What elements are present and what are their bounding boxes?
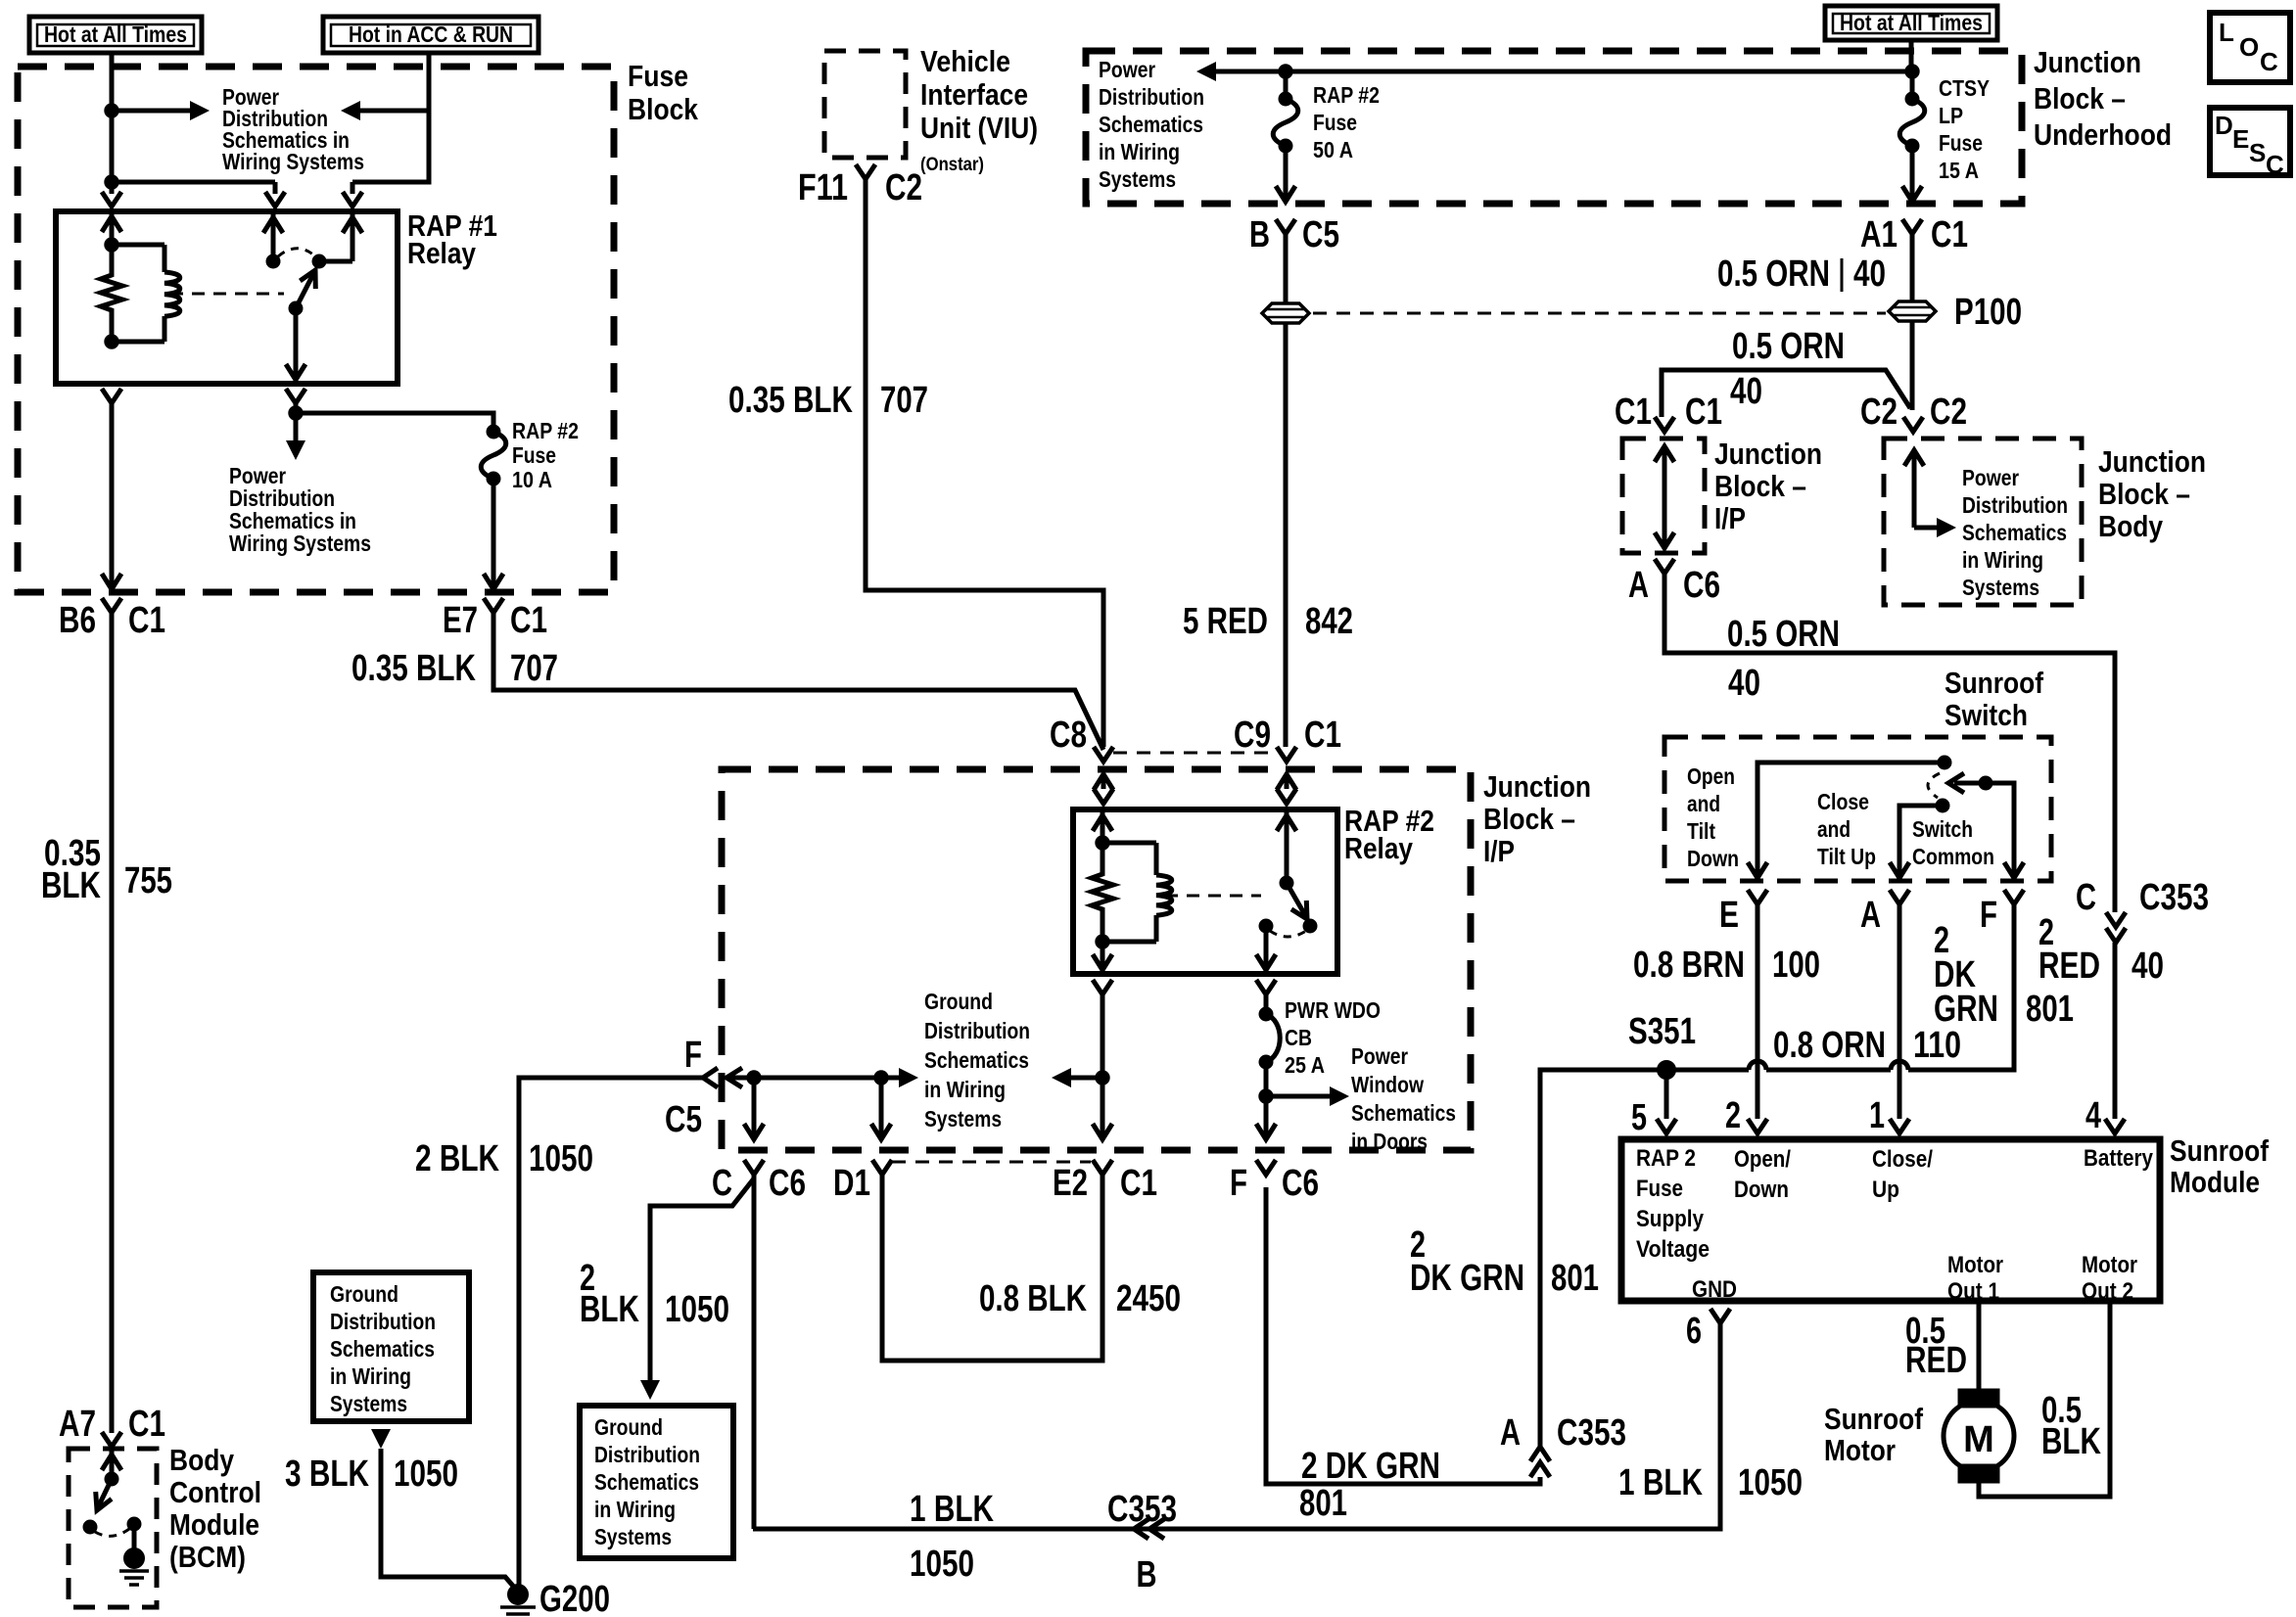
wire RAP #2 50A fuse output to boundary xyxy=(1284,146,1289,200)
svg-text:Fuse: Fuse xyxy=(1313,110,1357,135)
svg-text:Block –: Block – xyxy=(2098,477,2190,511)
wire motor out 2 0.5 BLK xyxy=(1979,1301,2110,1497)
wire CTSY fuse output to boundary xyxy=(1910,146,1915,200)
svg-text:Up: Up xyxy=(1872,1177,1899,1203)
RAP #1 switch movable arm with arrowhead xyxy=(296,274,313,308)
ground bus node dot D1 xyxy=(874,1071,888,1085)
connector chevron module pin 6 GND xyxy=(1710,1309,1730,1323)
wire from close contact to pin A xyxy=(1899,806,1943,876)
svg-text:and: and xyxy=(1817,816,1851,842)
RAP #1 actuation dashed link from coil xyxy=(170,293,284,296)
svg-text:801: 801 xyxy=(2026,989,2074,1030)
svg-text:Out 2: Out 2 xyxy=(2082,1278,2133,1305)
Junction Block Body dashed box xyxy=(1884,439,2082,605)
svg-text:40: 40 xyxy=(1730,371,1762,412)
svg-text:PWR WDO: PWR WDO xyxy=(1285,997,1381,1023)
ground bus arrow at boundary xyxy=(726,1068,742,1087)
RAP #2 coil xyxy=(1102,841,1156,846)
wire motor out 1 0.5 RED xyxy=(1977,1301,1982,1389)
svg-text:A1: A1 xyxy=(1860,214,1898,255)
RAP #1 resistor xyxy=(101,245,122,342)
DESC reference box xyxy=(2210,108,2290,175)
svg-text:Distribution: Distribution xyxy=(924,1018,1030,1043)
dashed pass-through link to P100 xyxy=(1313,312,1886,315)
svg-text:C353: C353 xyxy=(2139,877,2209,918)
relay pin chevron (left) xyxy=(1094,789,1113,804)
internal dashed link C8 to C9 xyxy=(1113,752,1275,755)
Sunroof Module box xyxy=(1621,1139,2160,1301)
switch common node dot xyxy=(1979,776,1992,790)
power label box Hot in ACC & RUN xyxy=(323,17,539,53)
wire 0.35 BLK 707 from VIU to junction block C8 xyxy=(866,179,1103,747)
fuse RAP #2 10 A symbol xyxy=(487,425,500,439)
RAP #2 switch output arrow xyxy=(1264,926,1269,969)
ground bus node dot C C6 xyxy=(747,1071,761,1085)
svg-text:B: B xyxy=(1137,1554,1157,1595)
connector B C5 chevron xyxy=(1276,219,1295,234)
svg-text:Junction: Junction xyxy=(2098,444,2206,479)
connector chevron below RAP #2 switch output xyxy=(1256,980,1276,994)
svg-text:in Wiring: in Wiring xyxy=(1099,139,1180,164)
connector chevron into RAP #1 relay pin 30 xyxy=(102,192,121,207)
wire RAP #1 output to RAP #2 fuse xyxy=(294,403,299,413)
switch common input contact dot xyxy=(1938,756,1951,769)
wire arrow to Power Distribution reference (right) xyxy=(112,109,192,114)
wire to RAP #2 50A fuse xyxy=(1284,71,1289,99)
svg-text:C1: C1 xyxy=(128,600,165,641)
svg-text:0.35 BLK: 0.35 BLK xyxy=(351,648,476,689)
RAP #1 switch dashed travel arc xyxy=(278,249,314,256)
svg-text:RAP 2: RAP 2 xyxy=(1636,1145,1696,1172)
svg-text:A: A xyxy=(1860,895,1881,936)
svg-text:A7: A7 xyxy=(59,1404,96,1445)
connector A7 C1 chevron at BCM xyxy=(102,1432,121,1447)
motor M circle xyxy=(1944,1401,2014,1471)
svg-text:C: C xyxy=(2266,150,2284,179)
svg-text:1 BLK: 1 BLK xyxy=(910,1489,994,1530)
svg-text:Interface: Interface xyxy=(920,77,1028,112)
connector C8 chevron xyxy=(1094,747,1113,762)
RAP #1 switch output wire with arrow xyxy=(294,308,299,380)
switch close contact dot xyxy=(1936,799,1949,812)
svg-text:F: F xyxy=(1230,1163,1247,1204)
svg-text:Open/: Open/ xyxy=(1734,1146,1791,1173)
RAP #2 switch contact dots xyxy=(1259,919,1273,933)
svg-text:Wiring Systems: Wiring Systems xyxy=(222,149,364,174)
svg-text:Fuse: Fuse xyxy=(512,442,556,468)
svg-text:Wiring Systems: Wiring Systems xyxy=(229,531,371,556)
svg-text:I/P: I/P xyxy=(1714,501,1746,535)
connector chevron into RAP #1 relay pin 85 xyxy=(265,192,285,207)
svg-text:Systems: Systems xyxy=(330,1391,407,1416)
svg-text:Schematics: Schematics xyxy=(1351,1100,1456,1126)
connector F11 C2 chevron below VIU xyxy=(856,164,875,179)
svg-text:Block –: Block – xyxy=(2034,81,2126,115)
wire 3 BLK 1050 from ground reference box to G200 xyxy=(371,1429,391,1449)
svg-text:Ground: Ground xyxy=(924,989,993,1014)
Junction Block I/P dashed outline xyxy=(722,769,1471,1150)
grommet symbol on 5 RED wire xyxy=(1262,303,1309,323)
connector C C353 double chevron xyxy=(2106,912,2126,927)
Ground Distribution Schematics reference box (left) xyxy=(313,1272,469,1421)
svg-text:842: 842 xyxy=(1305,601,1353,642)
sunroof motor bottom terminal xyxy=(1958,1464,1999,1483)
connector B C353 double chevron on ground run xyxy=(1134,1519,1148,1539)
svg-text:C1: C1 xyxy=(1931,214,1968,255)
connector chevron into RAP #1 relay pin 86 xyxy=(343,192,362,207)
svg-text:0.35 BLK: 0.35 BLK xyxy=(728,380,853,421)
svg-text:C: C xyxy=(2076,877,2096,918)
svg-text:Block –: Block – xyxy=(1714,469,1806,503)
svg-text:DK GRN: DK GRN xyxy=(1410,1258,1524,1299)
wire coil return down to fuse block edge B6 xyxy=(110,403,115,587)
svg-text:3 BLK: 3 BLK xyxy=(285,1454,369,1495)
svg-text:5 RED: 5 RED xyxy=(1183,601,1268,642)
svg-text:Junction: Junction xyxy=(1483,769,1591,804)
connector chevron module pin 2 xyxy=(1748,1119,1767,1133)
RAP #1 coil top node dot xyxy=(105,238,118,252)
svg-text:C5: C5 xyxy=(665,1099,702,1140)
RAP #1 coil xyxy=(112,243,164,248)
connector C9 C1 chevron xyxy=(1277,747,1296,762)
BCM input arrow xyxy=(110,1451,115,1479)
svg-text:2450: 2450 xyxy=(1116,1278,1181,1319)
connector chevron module pin 1 xyxy=(1890,1119,1909,1133)
LOC reference box xyxy=(2210,13,2290,82)
relay RAP #2 box xyxy=(1073,809,1337,974)
svg-text:Motor: Motor xyxy=(1947,1252,2003,1278)
wire 2 RED 40 battery feed to module pin 4 xyxy=(2113,943,2118,1119)
svg-text:Schematics: Schematics xyxy=(1962,520,2067,545)
svg-text:Sunroof: Sunroof xyxy=(1945,666,2044,700)
relay pin chevron (right) xyxy=(1277,789,1296,804)
switch dashed travel arc xyxy=(1928,773,1940,798)
svg-text:E2: E2 xyxy=(1053,1163,1088,1204)
connector E2 C1 chevron xyxy=(1093,1160,1112,1175)
svg-text:1 BLK: 1 BLK xyxy=(1618,1462,1703,1503)
svg-text:(Onstar): (Onstar) xyxy=(920,155,984,175)
wire from S351 to corner and down to C353 A xyxy=(1540,1070,1646,1446)
splice S351 dot xyxy=(1658,1061,1676,1080)
wire C8 into RAP #2 relay xyxy=(1101,774,1106,789)
svg-text:F: F xyxy=(1980,895,1997,936)
svg-text:O: O xyxy=(2239,32,2259,62)
svg-text:50 A: 50 A xyxy=(1313,137,1353,162)
grommet symbol P100 xyxy=(1889,301,1936,321)
svg-text:C1: C1 xyxy=(128,1404,165,1445)
connector chevron module pin 5 xyxy=(1657,1119,1676,1133)
svg-text:Systems: Systems xyxy=(594,1524,672,1549)
svg-text:C6: C6 xyxy=(769,1163,806,1204)
svg-text:GND: GND xyxy=(1692,1276,1737,1303)
RAP #2 pin arrow coil xyxy=(1101,809,1105,843)
svg-text:5: 5 xyxy=(1631,1097,1647,1138)
svg-text:BLK: BLK xyxy=(41,865,101,906)
wire 0.5 ORN 40 from A C6 to sunroof switch feed xyxy=(1664,574,2115,912)
RAP #1 NO contact dot xyxy=(312,254,326,268)
svg-text:Relay: Relay xyxy=(407,236,477,270)
svg-text:25 A: 25 A xyxy=(1285,1052,1325,1078)
ground G200 symbol xyxy=(500,1605,536,1609)
svg-text:BLK: BLK xyxy=(2041,1421,2101,1462)
svg-text:Common: Common xyxy=(1912,844,1994,869)
RAP #2 coil bottom node dot xyxy=(1096,935,1109,948)
connector F C6 chevron xyxy=(1256,1160,1276,1175)
svg-text:C6: C6 xyxy=(1282,1163,1319,1204)
svg-text:E7: E7 xyxy=(443,600,478,641)
svg-text:Fuse: Fuse xyxy=(1939,130,1983,156)
svg-text:2 DK GRN: 2 DK GRN xyxy=(1301,1446,1440,1487)
ground distribution bus wire xyxy=(726,1076,901,1081)
svg-text:801: 801 xyxy=(1551,1258,1599,1299)
svg-text:Window: Window xyxy=(1351,1072,1424,1097)
svg-text:F11: F11 xyxy=(798,167,848,208)
connector A1 C1 chevron xyxy=(1902,219,1922,234)
svg-text:10 A: 10 A xyxy=(512,467,552,492)
svg-text:1050: 1050 xyxy=(665,1289,729,1330)
Vehicle Interface Unit dashed box xyxy=(824,51,906,158)
fuse RAP #2 50 A symbol xyxy=(1279,92,1292,106)
connector D1 chevron xyxy=(872,1160,892,1175)
svg-text:Hot at All Times: Hot at All Times xyxy=(44,22,187,47)
svg-text:RED: RED xyxy=(1905,1340,1967,1381)
svg-text:RAP #2: RAP #2 xyxy=(1313,82,1380,108)
svg-text:1050: 1050 xyxy=(529,1138,593,1179)
svg-text:Block: Block xyxy=(628,92,699,126)
svg-text:C1: C1 xyxy=(510,600,547,641)
svg-text:Relay: Relay xyxy=(1344,831,1414,865)
ground bus exit chevron F C5 xyxy=(703,1068,718,1087)
wire coil return to ground bus and E2 xyxy=(1101,994,1105,1137)
Junction Block Underhood dashed outline xyxy=(1086,51,2022,204)
svg-text:C1: C1 xyxy=(1120,1163,1157,1204)
RAP #2 coil top node dot xyxy=(1096,836,1109,850)
svg-text:1050: 1050 xyxy=(1738,1462,1803,1503)
Body Control Module dashed box xyxy=(69,1449,157,1607)
svg-text:M: M xyxy=(1963,1419,1994,1460)
svg-text:Battery: Battery xyxy=(2084,1145,2154,1172)
svg-text:RAP #2: RAP #2 xyxy=(512,418,579,443)
svg-text:1050: 1050 xyxy=(394,1454,458,1495)
connector chevron below RAP #1 switch output xyxy=(286,389,305,403)
circuit breaker PWR WDO CB 25A symbol xyxy=(1259,1007,1273,1021)
RAP #1 pin arrow switch common xyxy=(271,211,276,261)
svg-text:Open: Open xyxy=(1687,763,1735,789)
wire 0.8 BRN 100 pin E to module pin 2 xyxy=(1756,904,1760,1119)
svg-text:E: E xyxy=(2232,124,2249,154)
wire 1 BLK 1050 from GND pin to ground run xyxy=(753,1323,1720,1529)
svg-text:C1: C1 xyxy=(1685,392,1722,433)
BCM contact dot xyxy=(83,1520,97,1534)
connector C C6 chevron xyxy=(744,1160,764,1175)
svg-text:C1: C1 xyxy=(1615,392,1652,433)
svg-text:1050: 1050 xyxy=(910,1544,974,1585)
BCM dashed travel arc xyxy=(95,1529,129,1536)
svg-text:Switch: Switch xyxy=(1912,816,1973,842)
svg-text:Sunroof: Sunroof xyxy=(1824,1402,1924,1436)
svg-text:Control: Control xyxy=(169,1475,261,1509)
svg-text:CB: CB xyxy=(1285,1025,1312,1050)
arrow to Power Window Schematics reference xyxy=(1266,1094,1332,1099)
svg-text:Distribution: Distribution xyxy=(1099,84,1204,110)
svg-text:Out 1: Out 1 xyxy=(1947,1278,1999,1305)
svg-text:S: S xyxy=(2249,138,2266,167)
Ground Distribution Schematics reference box (center) xyxy=(580,1406,733,1558)
wire switch common to pin F xyxy=(1986,783,2014,876)
wire 1 BLK 1050 from C C6 down to ground run xyxy=(752,1175,757,1529)
connector C2 C2 chevron into junction block body xyxy=(1903,417,1923,432)
wire branch 0.5 ORN 40 to junction block I/P C1 xyxy=(1662,370,1910,417)
svg-text:707: 707 xyxy=(880,380,928,421)
wire C9 into RAP #2 relay xyxy=(1285,774,1289,789)
RAP #1 coil bottom node dot xyxy=(105,335,118,348)
connector chevron below RAP #1 coil return xyxy=(102,389,121,403)
svg-text:Underhood: Underhood xyxy=(2034,117,2172,152)
RAP #2 resistor xyxy=(1092,843,1113,942)
svg-text:755: 755 xyxy=(124,860,172,901)
RAP #1 switch arm pivot dot xyxy=(289,301,303,315)
connector A C353 double chevron xyxy=(1530,1447,1550,1461)
svg-text:C6: C6 xyxy=(1683,565,1720,606)
svg-text:C353: C353 xyxy=(1557,1412,1626,1454)
svg-text:Power: Power xyxy=(1962,465,2019,490)
wire D1 drop xyxy=(879,1078,884,1137)
connector A C6 chevron below junction block I/P xyxy=(1655,559,1674,574)
Sunroof Switch dashed box xyxy=(1664,737,2051,881)
wire arrow down to Power Distribution reference (lower) xyxy=(294,413,299,442)
svg-text:Down: Down xyxy=(1687,846,1739,871)
wire 0.8 BLK 2450 loop D1 to E2 xyxy=(882,1175,1102,1361)
RAP #2 coil return arrow to box edge xyxy=(1101,942,1105,969)
wire hop over pin-1 wire xyxy=(1891,1061,1908,1070)
wire branch to Ground Distribution reference box xyxy=(650,1178,754,1382)
wire from Hot in ACC & RUN down and left to relay pin 86 xyxy=(352,53,429,182)
svg-text:Body: Body xyxy=(2098,509,2164,543)
svg-text:S351: S351 xyxy=(1628,1011,1696,1052)
svg-text:Tilt: Tilt xyxy=(1687,818,1715,844)
svg-text:C2: C2 xyxy=(1930,392,1967,433)
ground bus continuation to relay wire xyxy=(1052,1068,1071,1087)
svg-text:0.5 ORN: 0.5 ORN xyxy=(1717,254,1830,295)
svg-text:in Wiring: in Wiring xyxy=(1962,547,2043,573)
connector chevron below RAP #2 coil return xyxy=(1093,980,1112,994)
BCM ground contact dot xyxy=(127,1517,141,1531)
svg-text:in Wiring: in Wiring xyxy=(330,1363,411,1389)
BCM ground stem xyxy=(132,1524,137,1549)
svg-text:0.8 BRN: 0.8 BRN xyxy=(1633,945,1745,986)
svg-text:Close/: Close/ xyxy=(1872,1146,1933,1173)
svg-text:LP: LP xyxy=(1939,103,1963,128)
BCM ground ball xyxy=(124,1548,145,1569)
svg-text:in Wiring: in Wiring xyxy=(594,1497,676,1522)
svg-text:Hot in ACC & RUN: Hot in ACC & RUN xyxy=(349,22,513,47)
svg-text:40: 40 xyxy=(1853,254,1886,295)
svg-text:Module: Module xyxy=(2170,1165,2260,1199)
svg-text:CTSY: CTSY xyxy=(1939,75,1990,101)
svg-text:I/P: I/P xyxy=(1483,834,1515,868)
relay RAP #1 box xyxy=(56,211,398,384)
svg-text:Systems: Systems xyxy=(924,1106,1002,1132)
svg-text:Supply: Supply xyxy=(1636,1206,1705,1232)
wire 2 BLK 1050 from F C5 to G200 xyxy=(519,1078,703,1592)
ground bus node dot at relay wire xyxy=(1096,1071,1109,1085)
wire 2 DK GRN continued with crossover hops xyxy=(1646,1068,1749,1073)
node dot hot bus at RAP #2 fuse xyxy=(1279,65,1292,78)
wire 0.8 ORN 110 pin A to module pin 1 xyxy=(1898,904,1902,1119)
svg-text:6: 6 xyxy=(1686,1311,1702,1352)
connector B6 C1 chevron at fuse block bottom xyxy=(102,598,121,613)
svg-text:Junction: Junction xyxy=(1714,437,1822,471)
RAP #2 switch arm with arrowhead xyxy=(1287,883,1305,915)
wire arrow from ACC feed to Power Distribution reference (left) xyxy=(358,109,429,114)
fuse CTSY LP 15 A symbol xyxy=(1905,92,1919,106)
svg-text:Junction: Junction xyxy=(2034,45,2141,79)
sunroof motor top terminal xyxy=(1958,1389,1999,1408)
svg-text:4: 4 xyxy=(2085,1095,2101,1136)
wire from common contact to pin E open/tilt-down xyxy=(1757,762,1945,876)
wire 2 DK GRN 801 from F C6 loop to C353 A xyxy=(1266,1187,1540,1484)
svg-text:D1: D1 xyxy=(833,1163,870,1204)
svg-text:0.5 ORN: 0.5 ORN xyxy=(1727,614,1840,655)
wire 0.5 ORN 40 from A1 through P100 xyxy=(1910,234,1915,300)
wire stub S351 to module pin 5 xyxy=(1664,1070,1669,1119)
svg-text:Schematics: Schematics xyxy=(924,1047,1029,1073)
svg-text:C5: C5 xyxy=(1302,214,1339,255)
svg-text:E: E xyxy=(1719,895,1739,936)
internal dashed link D1 to E2 xyxy=(892,1161,1091,1164)
RAP #2 switch pivot dot xyxy=(1280,876,1293,890)
svg-text:15 A: 15 A xyxy=(1939,158,1979,183)
BCM ground symbol xyxy=(119,1569,149,1573)
svg-text:C1: C1 xyxy=(1304,715,1341,756)
svg-text:Systems: Systems xyxy=(1962,575,2039,600)
wire 0.35 BLK 755 down left side to BCM xyxy=(110,613,115,1433)
svg-text:Block –: Block – xyxy=(1483,802,1575,836)
svg-text:Unit (VIU): Unit (VIU) xyxy=(920,111,1038,145)
svg-text:2: 2 xyxy=(1725,1095,1741,1136)
svg-text:Motor: Motor xyxy=(1824,1433,1896,1467)
internal double-arrow wire junction block I/P xyxy=(1663,448,1667,546)
svg-text:B6: B6 xyxy=(59,600,96,641)
svg-text:C2: C2 xyxy=(1860,392,1898,433)
svg-text:Switch: Switch xyxy=(1945,698,2028,732)
svg-text:Power: Power xyxy=(1099,57,1155,82)
Fuse Block dashed outline xyxy=(18,67,614,592)
svg-text:Schematics: Schematics xyxy=(1099,112,1203,137)
svg-text:Fuse: Fuse xyxy=(1636,1176,1683,1202)
svg-text:C8: C8 xyxy=(1050,715,1087,756)
svg-text:707: 707 xyxy=(510,648,558,689)
svg-text:in Doors: in Doors xyxy=(1351,1129,1428,1154)
svg-text:2 BLK: 2 BLK xyxy=(415,1138,499,1179)
svg-text:Body: Body xyxy=(169,1443,235,1477)
RAP #2 switch dashed travel arc xyxy=(1270,931,1306,937)
connector A chevron xyxy=(1890,890,1909,904)
svg-text:GRN: GRN xyxy=(1934,989,1998,1030)
connector C1 C1 chevron into junction block I/P xyxy=(1655,417,1674,432)
RAP #1 pin arrow NO contact xyxy=(351,211,355,261)
wire hot feed bus inside junction block underhood xyxy=(1909,40,1914,72)
svg-text:(BCM): (BCM) xyxy=(169,1540,246,1574)
svg-text:C2: C2 xyxy=(885,167,922,208)
connector E7 C1 chevron xyxy=(484,598,503,613)
RAP #2 actuation dashed link xyxy=(1165,895,1261,898)
svg-text:Module: Module xyxy=(169,1507,259,1542)
svg-text:P100: P100 xyxy=(1954,292,2022,333)
svg-text:Ground: Ground xyxy=(594,1414,663,1440)
svg-text:110: 110 xyxy=(1913,1025,1961,1066)
svg-text:Systems: Systems xyxy=(1099,166,1176,192)
